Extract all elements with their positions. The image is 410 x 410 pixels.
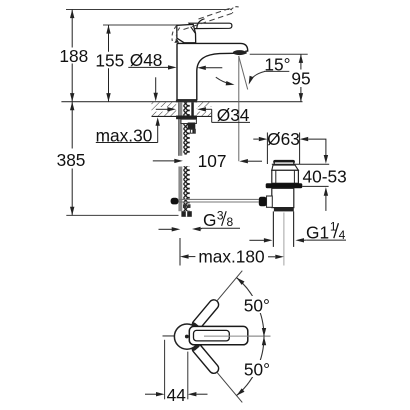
countertop bottom line [152, 115, 212, 117]
callout diameter 34 [156, 107, 168, 112]
hose end nut [181, 211, 191, 217]
svg-text:44: 44 [167, 385, 187, 405]
drain flange [272, 170, 299, 183]
countertop hatched cross-section left [152, 102, 177, 116]
rod ball end [171, 198, 179, 205]
reference line hose end [66, 214, 178, 216]
reference line lever rest height [103, 24, 191, 26]
dimension 95 [300, 54, 302, 69]
shank threaded knurl lower [183, 166, 189, 211]
mounting bracket [181, 119, 196, 123]
bottom view centerline [163, 335, 271, 337]
swing arc upper [237, 278, 265, 337]
base plinth [176, 100, 197, 103]
svg-text:155: 155 [95, 51, 124, 71]
bottom view body circle [174, 324, 199, 349]
50 deg label bottom [242, 360, 273, 377]
svg-text:Ø34: Ø34 [217, 105, 250, 125]
locknut under deck [176, 116, 197, 120]
water stream 15 deg line [239, 56, 248, 90]
phantom raised lever dashes [199, 9, 230, 19]
cartridge block [177, 24, 196, 42]
hose hex detail [183, 204, 186, 208]
drain plug cap [273, 160, 295, 164]
drain washer [266, 183, 303, 188]
15 deg arc left [216, 77, 232, 84]
svg-text:max.180: max.180 [198, 247, 264, 267]
svg-text:107: 107 [198, 151, 227, 171]
dimension max.180 [179, 238, 181, 266]
aerator [233, 50, 246, 55]
rod holder [267, 196, 273, 207]
drain nut [274, 208, 294, 212]
drain centerline [283, 213, 285, 266]
shank grey pipe lower [178, 167, 182, 212]
shank grey pipe upper [178, 102, 182, 156]
shank dark bar in deck [191, 102, 194, 115]
svg-text:40-53: 40-53 [302, 167, 346, 187]
rod knob [259, 197, 267, 207]
lever root lip [197, 19, 205, 28]
svg-text:50°: 50° [244, 360, 270, 380]
dimension 44 [164, 340, 166, 400]
bottom view lever at -50 [190, 342, 246, 406]
bottom view lever main [189, 326, 248, 344]
svg-text:8: 8 [227, 215, 234, 229]
deck pointer arrow [155, 77, 157, 93]
faucet body and spout [177, 43, 248, 99]
water stream vertical reference [238, 56, 240, 161]
svg-text:G: G [203, 210, 216, 230]
dimension 385 [71, 102, 73, 149]
svg-text:385: 385 [57, 150, 86, 170]
bottom view lever at +50 [190, 268, 246, 332]
reference line countertop surface [61, 101, 302, 103]
swing arc lower [237, 337, 265, 396]
lever handle blade [189, 23, 232, 28]
svg-text:95: 95 [291, 68, 310, 88]
drain body [272, 188, 294, 207]
reference line top of raised lever [66, 9, 229, 11]
dark joint on body [174, 39, 179, 43]
drain cone [272, 165, 299, 170]
dimension 40-53 [272, 163, 329, 165]
reference line aerator height [250, 53, 308, 55]
svg-text:50°: 50° [244, 296, 270, 316]
dimension diameter 63 [266, 133, 268, 165]
15 deg arc right with leader [249, 71, 265, 82]
phantom swivel arc [172, 26, 177, 41]
50 deg label top [242, 296, 273, 313]
drain tailpipe [272, 211, 274, 247]
svg-text:Ø63: Ø63 [267, 129, 300, 149]
dimension 155 [108, 25, 110, 52]
svg-text:188: 188 [59, 46, 88, 66]
svg-text:Ø48: Ø48 [130, 50, 163, 70]
shank threaded knurl upper [183, 102, 189, 154]
countertop hatched cross-section right [197, 102, 212, 116]
dimension 107 [153, 160, 175, 162]
pop-up rod [179, 198, 259, 200]
dimension 188 [71, 10, 73, 48]
